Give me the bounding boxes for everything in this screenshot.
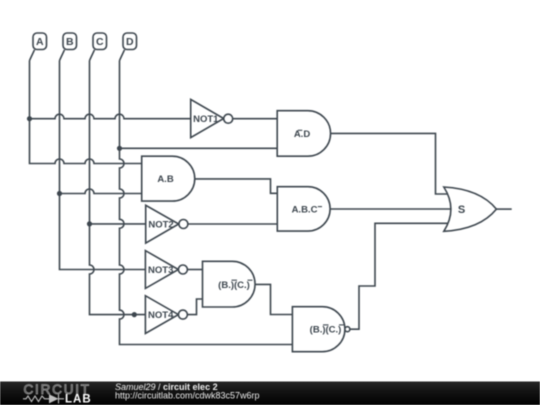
svg-text:NOT3: NOT3 [148,265,173,276]
svg-text:NOT2: NOT2 [148,219,173,230]
svg-text:S: S [458,204,465,216]
svg-text:A.B.C: A.B.C [292,205,318,216]
svg-text:NOT4: NOT4 [148,310,174,321]
svg-text:LAB: LAB [65,394,92,405]
svg-text:http://circuitlab.com/cdwk83c5: http://circuitlab.com/cdwk83c57w6rp [115,391,260,401]
svg-text:C: C [96,36,104,48]
svg-text:(B.)(C.): (B.)(C.) [310,325,342,336]
svg-text:NOT1: NOT1 [193,114,219,125]
svg-text:(B.)(C.): (B.)(C.) [218,280,250,291]
svg-text:B: B [66,36,74,48]
svg-text:A: A [36,36,44,48]
svg-text:A.B: A.B [157,174,174,185]
svg-text:D: D [126,36,134,48]
